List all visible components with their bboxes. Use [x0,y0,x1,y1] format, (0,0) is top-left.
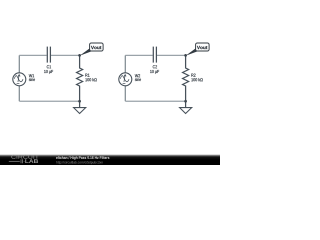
wire right circuit top rail left segment [125,54,152,56]
label 100k R1 [85,78,96,81]
wire left circuit left vertical bottom [18,86,20,102]
Vout flag left tail [80,48,93,56]
ground right [185,101,187,107]
wire left circuit left vertical top [18,55,20,73]
node junction bottom right [184,100,187,103]
logo CIRCUIT text [11,155,109,164]
resistor R2 [183,55,189,101]
schematic canvas [0,0,220,152]
wire left circuit top rail right segment [51,54,80,56]
ground left [79,101,81,107]
footer watermark bar [0,153,220,165]
footer url text [56,161,103,164]
voltage source W1 [13,73,26,86]
label Vout right [197,46,207,49]
label sine W1 [29,78,35,81]
label 10uF C2 [150,70,159,74]
capacitor C1 [46,47,48,63]
wire right circuit left vertical bottom [124,86,126,102]
node junction top left [78,54,81,57]
node junction top right [184,54,187,57]
node junction bottom left [78,100,81,103]
Vout flag right box [196,43,210,51]
wire right circuit left vertical top [124,55,126,73]
label C2 [153,65,157,68]
logo LAB text [25,159,38,163]
label sine W2 [135,78,141,81]
resistor R1 [77,55,83,101]
label W2 [135,74,140,77]
voltage source W2 [119,73,132,86]
label R1 [85,74,89,77]
logo CircuitLab [9,159,25,163]
Vout flag right tail [186,48,199,56]
capacitor C2 [152,47,154,63]
label R2 [191,74,195,77]
label Vout left [91,46,101,49]
Vout flag left box [90,43,104,51]
label W1 [29,74,34,77]
wire right circuit bottom rail [125,100,185,102]
label C1 [47,65,51,68]
label 100k R2 [191,78,202,81]
wire left circuit top rail left segment [19,54,46,56]
footer title text [56,156,109,160]
label 10uF C1 [44,70,53,74]
wire left circuit bottom rail [19,100,79,102]
wire right circuit top rail right segment [157,54,186,56]
